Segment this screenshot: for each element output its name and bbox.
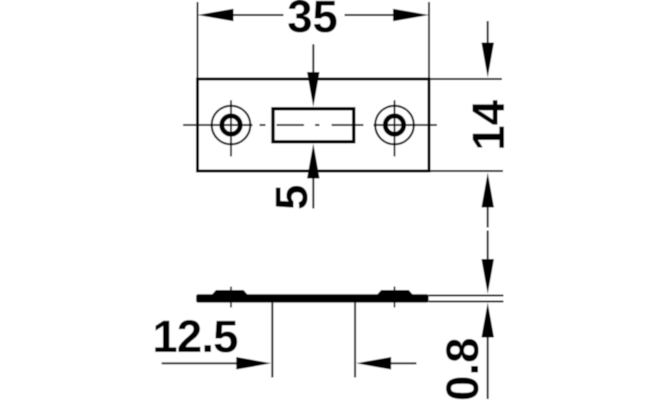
dim 5 top arrow — [307, 72, 320, 107]
dim 14 extension line top — [431, 78, 503, 80]
dim 12.5 arrow right-pointing — [236, 357, 271, 370]
bottom surface extension line — [429, 301, 504, 303]
dim 14 extension line bottom — [431, 170, 504, 172]
svg-text:5: 5 — [266, 185, 317, 210]
dim 35 line — [233, 14, 394, 16]
leader between views — [487, 208, 489, 260]
svg-text:14: 14 — [463, 99, 514, 150]
horizontal centerline dash-dot — [183, 124, 437, 126]
dim 35 arrow left — [198, 9, 234, 22]
hole right vertical centerline — [394, 100, 396, 156]
bump right centerline — [394, 287, 396, 308]
top surface extension line — [429, 294, 504, 296]
dim 14 bottom arrow — [481, 173, 494, 208]
dim 12.5 line left — [162, 362, 237, 364]
dim 5 top leader — [312, 44, 314, 73]
slot — [273, 109, 354, 142]
arrow to side view top — [481, 259, 494, 294]
dim 12.5 extension line left — [271, 303, 273, 378]
dim 35 extension line right — [428, 2, 430, 79]
dim 14 top leader — [487, 21, 489, 44]
dim 14 top arrow — [481, 43, 494, 78]
dim 5 bottom leader — [312, 179, 314, 209]
svg-text:12.5: 12.5 — [152, 311, 238, 362]
hole left bold ring — [222, 116, 240, 134]
hole left vertical centerline — [230, 100, 232, 156]
hole right bold ring — [385, 116, 403, 134]
screw head bump right — [377, 290, 413, 295]
dim 0.8 arrow — [481, 303, 494, 338]
dim 35 extension line left — [197, 2, 199, 79]
dim 5 bottom arrow — [307, 144, 320, 179]
dim 35 arrow right — [393, 9, 429, 22]
bump left centerline — [230, 287, 232, 308]
plate outline top view — [198, 79, 430, 171]
svg-text:35: 35 — [287, 0, 338, 42]
svg-text:0.8: 0.8 — [437, 338, 488, 400]
dim 12.5 line right — [391, 362, 416, 364]
hole left outer circle — [212, 106, 251, 145]
screw head bump left — [212, 290, 248, 295]
dim 0.8 leader — [487, 338, 489, 400]
side view body — [196, 294, 428, 302]
dim 12.5 extension line right — [354, 303, 356, 378]
hole right outer circle — [375, 106, 414, 145]
dim 12.5 arrow left-pointing — [356, 357, 391, 370]
